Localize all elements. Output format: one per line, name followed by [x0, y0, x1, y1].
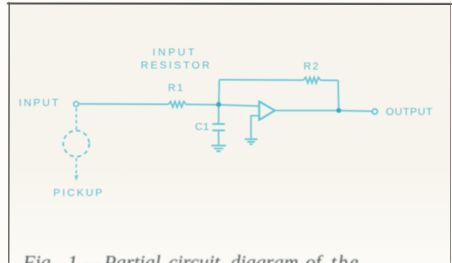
ground below C1 [211, 146, 226, 152]
pickup lead end mark [74, 175, 78, 181]
wire R1 to node A [187, 103, 219, 105]
frame border top [7, 3, 452, 4]
svg-text:INPUT: INPUT [153, 46, 198, 58]
resistor R2 [304, 77, 321, 83]
wire capacitor C1 top lead [218, 105, 220, 123]
output terminal [372, 109, 377, 114]
wire feedback top left [219, 79, 303, 81]
svg-text:R1: R1 [168, 82, 184, 94]
resistor R1 [169, 101, 188, 107]
node A junction dot [216, 102, 221, 107]
wire feedback riser left [218, 80, 221, 105]
frame border left [8, 2, 9, 263]
svg-text:PICKUP: PICKUP [53, 187, 104, 199]
wire feedback drop right [337, 80, 340, 110]
svg-text:R2: R2 [304, 61, 320, 73]
wire op-amp non-inverting input [251, 116, 260, 139]
op-amp U1 [259, 102, 275, 120]
wire op-amp output to node B [275, 110, 339, 112]
pickup coil dashed circle [63, 131, 89, 157]
ground below op-amp input [245, 139, 258, 144]
wire feedback top right [320, 79, 338, 81]
svg-text:RESISTOR: RESISTOR [141, 60, 212, 72]
wire node A to op-amp input [219, 105, 260, 106]
wire capacitor C1 bottom lead [218, 131, 220, 145]
wire input line [79, 103, 169, 105]
pickup lead dashed lower [75, 158, 77, 174]
svg-text:C1: C1 [195, 121, 209, 133]
input terminal [74, 102, 79, 107]
capacitor C1 plates [212, 124, 225, 130]
node B junction dot [336, 108, 341, 113]
frame border right [449, 3, 451, 263]
pickup lead dashed upper [75, 108, 77, 130]
svg-text:OUTPUT: OUTPUT [386, 106, 433, 118]
wire node B to output terminal [341, 110, 372, 113]
svg-text:INPUT: INPUT [19, 97, 61, 109]
svg-text:Fig.1—Partialcircuitdiagramoft: Fig.1—Partialcircuitdiagramofthe [22, 252, 360, 263]
